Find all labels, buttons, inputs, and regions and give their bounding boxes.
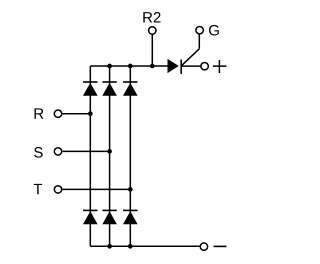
diode D5 lower column 2: [102, 210, 117, 224]
label S: [34, 147, 43, 158]
node junction bottom rail column 2: [107, 244, 112, 249]
node junction R column 1: [88, 111, 93, 116]
diode D6 lower column 3: [123, 210, 138, 224]
label minus sign: [214, 245, 227, 247]
wire bottom DC rail: [90, 245, 200, 247]
wire R2 stem: [151, 35, 153, 66]
label R: [35, 108, 44, 118]
diode D3 upper column 3: [123, 82, 138, 96]
thyristor SCR anode triangle: [168, 59, 179, 73]
wire phase column 3: [129, 66, 131, 246]
terminal R circle: [54, 110, 61, 117]
terminal S circle: [54, 148, 61, 155]
node junction top rail column 2: [107, 64, 112, 69]
diode D4 lower column 1: [83, 210, 98, 224]
terminal plus circle: [201, 62, 208, 69]
wire phase column 2: [109, 66, 111, 246]
terminal R2 circle: [149, 27, 156, 34]
node junction bottom rail column 3: [128, 244, 133, 249]
label plus sign: [213, 60, 227, 73]
wire S input: [62, 150, 109, 152]
label R2: [143, 12, 152, 22]
thyristor SCR cathode bar: [180, 60, 182, 74]
wire phase column 1: [89, 66, 91, 246]
diode D2 upper column 2: [102, 82, 117, 96]
wire T input: [62, 188, 130, 190]
terminal minus circle: [200, 243, 207, 250]
wire SCR cathode to plus terminal: [181, 65, 200, 67]
node junction top rail R2 stem: [150, 64, 155, 69]
wire top DC rail: [90, 65, 168, 67]
label T: [34, 184, 42, 194]
node junction T column 3: [128, 187, 133, 192]
diode D1 upper column 1: [83, 82, 98, 96]
wire SCR gate vertical: [198, 34, 200, 49]
node junction S column 2: [107, 149, 112, 154]
wire SCR gate diagonal: [182, 49, 200, 66]
node junction top rail column 3: [128, 64, 133, 69]
terminal G circle: [196, 27, 203, 34]
wire R input: [62, 113, 90, 115]
terminal T circle: [54, 186, 61, 193]
label G: [209, 25, 219, 36]
